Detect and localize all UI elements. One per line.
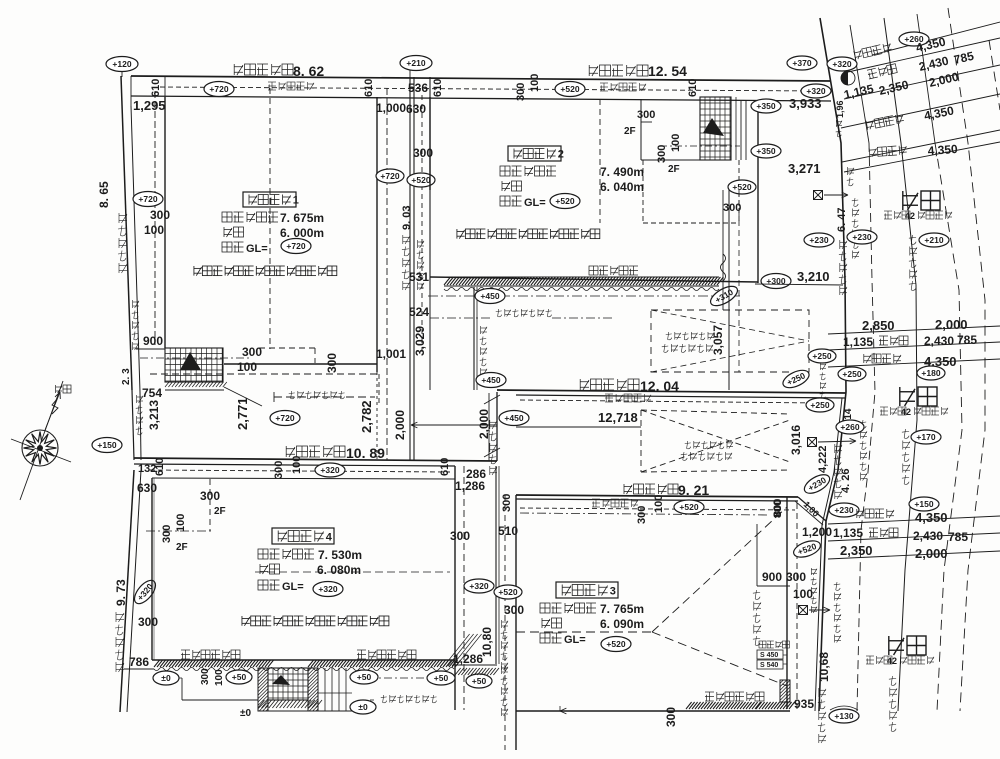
svg-text:7. 675m: 7. 675m	[280, 211, 324, 225]
svg-text:2F: 2F	[176, 542, 188, 553]
svg-text:754: 754	[142, 386, 162, 400]
svg-text:42: 42	[887, 656, 897, 666]
svg-text:3,057: 3,057	[711, 325, 725, 355]
svg-text:2,430: 2,430	[924, 334, 954, 348]
svg-text:+210: +210	[924, 235, 943, 245]
svg-text:100: 100	[291, 456, 303, 474]
svg-text:300: 300	[515, 83, 527, 101]
svg-text:+520: +520	[411, 175, 430, 185]
svg-text:300: 300	[504, 603, 524, 617]
svg-text:+120: +120	[112, 59, 131, 69]
svg-text:+450: +450	[480, 291, 499, 301]
svg-text:+250: +250	[842, 369, 861, 379]
svg-text:+230: +230	[852, 232, 871, 242]
svg-text:3,029: 3,029	[413, 326, 427, 356]
svg-text:+230: +230	[834, 505, 853, 515]
svg-text:300: 300	[501, 494, 513, 512]
svg-text:300: 300	[161, 525, 173, 543]
svg-text:300: 300	[150, 208, 170, 222]
svg-text:786: 786	[129, 655, 149, 669]
svg-text:+720: +720	[286, 241, 305, 251]
svg-text:+50: +50	[232, 672, 247, 682]
svg-text:+170: +170	[916, 432, 935, 442]
svg-text:300: 300	[200, 668, 211, 685]
svg-text:±0: ±0	[161, 673, 171, 683]
svg-text:+260: +260	[840, 422, 859, 432]
svg-text:+520: +520	[606, 639, 625, 649]
svg-text:+320: +320	[320, 465, 339, 475]
svg-text:10,68: 10,68	[817, 652, 831, 682]
svg-text:2,350: 2,350	[840, 543, 873, 558]
svg-text:2,000: 2,000	[393, 410, 407, 440]
svg-text:3,213: 3,213	[147, 400, 161, 430]
svg-text:+370: +370	[792, 58, 811, 68]
svg-text:S 450: S 450	[760, 652, 778, 659]
svg-text:300: 300	[637, 109, 655, 121]
svg-text:531: 531	[409, 270, 429, 284]
svg-text:536: 536	[408, 81, 428, 95]
svg-text:1,96: 1,96	[835, 100, 845, 118]
svg-text:2,782: 2,782	[359, 400, 374, 433]
svg-text:100: 100	[670, 134, 682, 152]
svg-text:610: 610	[687, 79, 699, 97]
svg-text:300: 300	[636, 506, 648, 524]
svg-text:+210: +210	[406, 58, 425, 68]
svg-text:12,718: 12,718	[598, 410, 638, 425]
svg-text:2. 3: 2. 3	[121, 368, 132, 385]
svg-text:+130: +130	[834, 711, 853, 721]
svg-text:2F: 2F	[214, 506, 226, 517]
svg-text:12. 54: 12. 54	[648, 63, 687, 79]
svg-text:800: 800	[772, 499, 784, 517]
svg-text:GL=: GL=	[246, 243, 268, 255]
svg-text:100: 100	[214, 669, 225, 686]
svg-text:+520: +520	[555, 196, 574, 206]
svg-text:42: 42	[901, 407, 911, 417]
svg-text:+320: +320	[832, 59, 851, 69]
svg-text:+520: +520	[498, 587, 517, 597]
svg-text:3: 3	[610, 586, 616, 598]
svg-text:100: 100	[653, 495, 665, 513]
svg-text:300: 300	[200, 489, 220, 503]
svg-text:300: 300	[325, 353, 339, 373]
svg-text:GL=: GL=	[564, 634, 586, 646]
svg-text:300: 300	[273, 461, 285, 479]
svg-text:610: 610	[363, 79, 375, 97]
svg-text:100: 100	[175, 514, 187, 532]
svg-text:±0: ±0	[240, 708, 251, 719]
svg-text:+180: +180	[921, 368, 940, 378]
svg-text:2,430: 2,430	[913, 529, 943, 543]
svg-text:42: 42	[905, 211, 915, 221]
svg-text:2F: 2F	[668, 164, 680, 175]
svg-text:1,295: 1,295	[133, 98, 166, 113]
svg-text:610: 610	[439, 458, 451, 476]
svg-text:GL=: GL=	[524, 197, 546, 209]
svg-text:7. 765m: 7. 765m	[600, 602, 644, 616]
svg-text:4,222: 4,222	[817, 445, 829, 473]
svg-text:785: 785	[957, 333, 977, 347]
svg-text:10. 89: 10. 89	[346, 445, 385, 461]
svg-text:2: 2	[558, 149, 564, 161]
svg-text:4. 26: 4. 26	[840, 469, 852, 493]
svg-text:+230: +230	[809, 235, 828, 245]
svg-text:900: 900	[762, 570, 782, 584]
svg-text:+320: +320	[806, 86, 825, 96]
svg-text:8. 62: 8. 62	[293, 63, 324, 79]
svg-text:1,135: 1,135	[843, 335, 873, 349]
svg-text:6. 090m: 6. 090m	[600, 617, 644, 631]
svg-text:3,933: 3,933	[789, 96, 822, 111]
svg-text:630: 630	[137, 481, 157, 495]
svg-text:+350: +350	[756, 101, 775, 111]
svg-text:510: 510	[498, 524, 518, 538]
svg-text:100: 100	[793, 587, 813, 601]
svg-text:+320: +320	[318, 584, 337, 594]
svg-text:2,771: 2,771	[235, 397, 250, 430]
svg-text:+250: +250	[812, 351, 831, 361]
svg-text:3,016: 3,016	[789, 425, 803, 455]
svg-text:300: 300	[242, 345, 262, 359]
svg-text:6. 080m: 6. 080m	[317, 563, 361, 577]
svg-text:1: 1	[293, 195, 299, 207]
svg-text:3,210: 3,210	[797, 269, 830, 284]
svg-text:4,350: 4,350	[915, 510, 948, 525]
svg-text:+520: +520	[560, 84, 579, 94]
svg-text:9. 73: 9. 73	[114, 579, 128, 606]
svg-text:6. 47: 6. 47	[836, 208, 848, 232]
svg-text:9. 03: 9. 03	[401, 206, 413, 230]
svg-text:GL=: GL=	[282, 581, 304, 593]
svg-text:S 540: S 540	[760, 662, 778, 669]
svg-text:+250: +250	[810, 400, 829, 410]
svg-text:2,000: 2,000	[935, 317, 968, 332]
svg-text:+150: +150	[914, 499, 933, 509]
svg-text:8. 65: 8. 65	[97, 181, 111, 208]
svg-text:2,000: 2,000	[915, 546, 948, 561]
svg-text:+720: +720	[138, 194, 157, 204]
svg-text:900: 900	[143, 334, 163, 348]
svg-text:6. 040m: 6. 040m	[600, 180, 644, 194]
svg-text:1,000: 1,000	[376, 101, 406, 115]
svg-text:132: 132	[138, 463, 156, 475]
svg-text:6. 000m: 6. 000m	[280, 226, 324, 240]
svg-text:100: 100	[529, 74, 541, 92]
svg-text:7. 530m: 7. 530m	[318, 548, 362, 562]
svg-text:+520: +520	[679, 502, 698, 512]
svg-text:300: 300	[450, 529, 470, 543]
svg-text:+720: +720	[209, 84, 228, 94]
svg-text:7. 490m: 7. 490m	[600, 165, 644, 179]
svg-text:+720: +720	[275, 413, 294, 423]
svg-text:2,850: 2,850	[862, 318, 895, 333]
svg-text:300: 300	[786, 570, 806, 584]
svg-text:3,271: 3,271	[788, 161, 821, 176]
svg-text:+450: +450	[504, 413, 523, 423]
svg-text:300: 300	[138, 615, 158, 629]
svg-text:2F: 2F	[624, 126, 636, 137]
svg-text:630: 630	[406, 102, 426, 116]
svg-text:±0: ±0	[358, 702, 368, 712]
svg-text:+50: +50	[357, 672, 372, 682]
svg-text:1,135: 1,135	[833, 526, 863, 540]
svg-text:935: 935	[794, 697, 814, 711]
svg-text:1,200: 1,200	[802, 525, 832, 539]
svg-text:4,350: 4,350	[927, 142, 958, 158]
svg-text:1,001: 1,001	[376, 347, 406, 361]
svg-text:+150: +150	[97, 440, 116, 450]
svg-text:4: 4	[326, 532, 333, 544]
svg-text:+50: +50	[434, 673, 449, 683]
svg-text:610: 610	[432, 79, 444, 97]
svg-text:100: 100	[237, 360, 257, 374]
svg-text:300: 300	[723, 202, 741, 214]
svg-text:+350: +350	[756, 146, 775, 156]
svg-text:+50: +50	[472, 676, 487, 686]
svg-text:300: 300	[664, 707, 678, 727]
svg-text:+320: +320	[469, 581, 488, 591]
svg-text:100: 100	[144, 223, 164, 237]
svg-text:+450: +450	[481, 375, 500, 385]
svg-text:1,286: 1,286	[455, 479, 485, 493]
svg-text:610: 610	[150, 79, 162, 97]
svg-text:524: 524	[409, 305, 429, 319]
svg-text:+720: +720	[380, 171, 399, 181]
svg-text:+520: +520	[732, 182, 751, 192]
svg-text:785: 785	[948, 530, 968, 544]
